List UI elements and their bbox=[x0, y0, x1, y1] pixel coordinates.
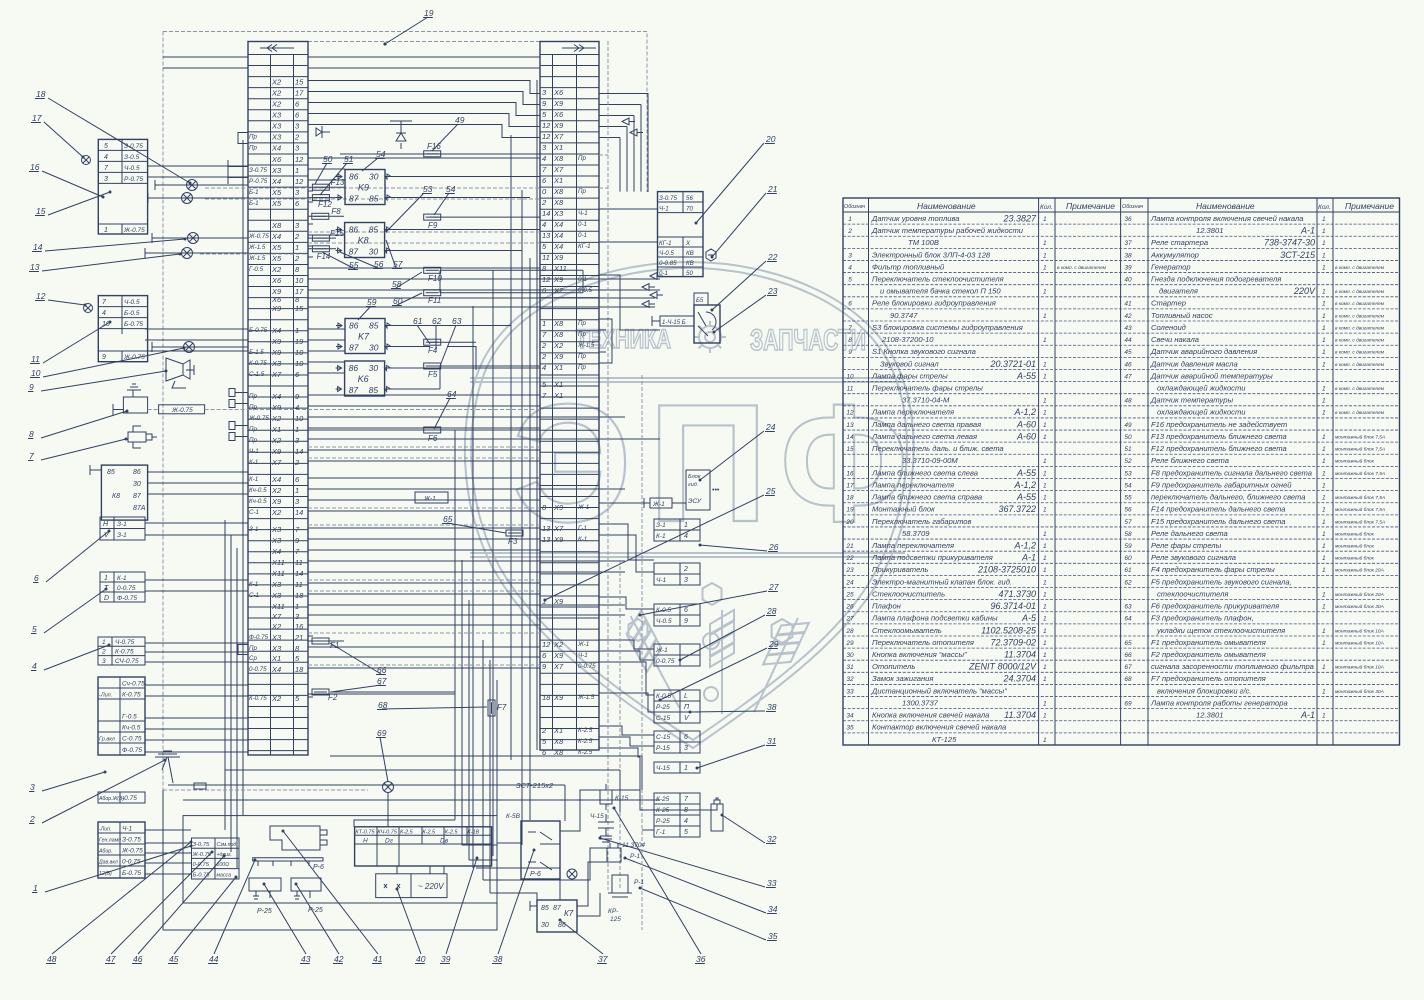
svg-text:З-0.75: З-0.75 bbox=[249, 167, 267, 174]
svg-text:72.3709-02: 72.3709-02 bbox=[990, 637, 1036, 647]
svg-text:F7: F7 bbox=[497, 703, 507, 712]
svg-text:масса: масса bbox=[217, 873, 232, 879]
svg-text:•••: ••• bbox=[712, 487, 720, 494]
svg-text:X3: X3 bbox=[271, 633, 282, 642]
svg-text:Ч-0.75: Ч-0.75 bbox=[115, 639, 135, 646]
svg-text:X4: X4 bbox=[553, 220, 563, 229]
svg-text:F9 предохранитель габаритных о: F9 предохранитель габаритных огней bbox=[1151, 480, 1292, 489]
svg-text:29: 29 bbox=[845, 640, 854, 647]
svg-text:1: 1 bbox=[1043, 313, 1047, 320]
svg-text:87: 87 bbox=[133, 493, 142, 500]
svg-text:ZENIT 8000/12V: ZENIT 8000/12V bbox=[968, 662, 1037, 672]
svg-text:42: 42 bbox=[1124, 313, 1132, 320]
svg-text:X1: X1 bbox=[553, 380, 563, 389]
svg-text:50: 50 bbox=[686, 270, 693, 277]
svg-text:F15: F15 bbox=[330, 229, 344, 238]
svg-text:13: 13 bbox=[30, 262, 40, 272]
svg-text:Пр: Пр bbox=[578, 188, 586, 195]
svg-text:Р-0.75: Р-0.75 bbox=[124, 176, 144, 183]
svg-text:1: 1 bbox=[1322, 410, 1326, 417]
svg-text:61: 61 bbox=[413, 316, 423, 326]
svg-text:С-1.5: С-1.5 bbox=[249, 371, 265, 378]
svg-text:16: 16 bbox=[846, 470, 854, 477]
svg-text:40: 40 bbox=[416, 954, 426, 964]
svg-text:Гнезда подключения подогревате: Гнезда подключения подогревателя bbox=[1151, 274, 1281, 283]
relay output wires bbox=[390, 177, 540, 390]
svg-text:34: 34 bbox=[846, 713, 854, 720]
svg-text:1: 1 bbox=[1043, 434, 1047, 441]
svg-text:1: 1 bbox=[1043, 482, 1047, 489]
svg-text:X2: X2 bbox=[271, 694, 282, 703]
svg-text:1: 1 bbox=[1043, 398, 1047, 405]
svg-text:13: 13 bbox=[542, 231, 551, 240]
svg-text:X9: X9 bbox=[553, 693, 564, 702]
220V outlet box bbox=[376, 874, 447, 898]
svg-text:27: 27 bbox=[768, 582, 779, 592]
svg-text:1: 1 bbox=[1322, 628, 1326, 635]
svg-text:Кол.: Кол. bbox=[1040, 204, 1053, 211]
svg-text:Пр: Пр bbox=[249, 393, 257, 400]
svg-text:Р-25: Р-25 bbox=[257, 908, 272, 915]
svg-text:Переключатель фары стрелы: Переключатель фары стрелы bbox=[872, 384, 983, 393]
P-1 relays and switches bottom right bbox=[567, 784, 645, 923]
svg-text:Лампа переключателя: Лампа переключателя bbox=[871, 480, 954, 489]
svg-text:3: 3 bbox=[684, 745, 688, 752]
svg-text:23.3827: 23.3827 bbox=[1002, 213, 1037, 223]
svg-text:18: 18 bbox=[295, 591, 304, 600]
svg-text:А-55: А-55 bbox=[1016, 492, 1037, 502]
svg-text:2: 2 bbox=[541, 352, 547, 361]
svg-text:X4: X4 bbox=[271, 475, 281, 484]
relay K6 bbox=[336, 361, 395, 396]
svg-text:0-0.85: 0-0.85 bbox=[659, 260, 677, 267]
svg-text:Ж-1: Ж-1 bbox=[652, 501, 665, 508]
svg-text:в комп. с двигателем: в комп. с двигателем bbox=[1335, 313, 1385, 319]
component box 15/16 (switch unit) bbox=[98, 139, 147, 234]
bottom routing wires bbox=[145, 694, 717, 930]
svg-text:Сзм.под: Сзм.под bbox=[217, 842, 237, 848]
svg-text:33: 33 bbox=[767, 878, 777, 888]
svg-text:Ч-1: Ч-1 bbox=[578, 210, 588, 217]
svg-text:X3: X3 bbox=[271, 166, 282, 175]
svg-text:X8: X8 bbox=[271, 221, 282, 230]
svg-text:в комп. с двигателем: в комп. с двигателем bbox=[1335, 386, 1385, 392]
svg-text:Ч-1: Ч-1 bbox=[249, 448, 259, 455]
svg-text:7: 7 bbox=[29, 451, 34, 461]
svg-text:F14 предохранитель дальнего св: F14 предохранитель дальнего света bbox=[1151, 505, 1286, 514]
svg-text:К-15: К-15 bbox=[615, 795, 629, 802]
svg-text:37: 37 bbox=[598, 954, 608, 964]
svg-text:в комп. с двигателем: в комп. с двигателем bbox=[1335, 338, 1385, 344]
svg-text:X6: X6 bbox=[271, 295, 282, 304]
svg-text:10: 10 bbox=[846, 373, 854, 380]
svg-text:X2: X2 bbox=[271, 508, 282, 517]
bolt terminal bbox=[706, 249, 716, 261]
bottom wide connector box bbox=[355, 827, 492, 866]
svg-text:КТ-125: КТ-125 bbox=[932, 735, 957, 744]
svg-text:X3: X3 bbox=[271, 525, 282, 534]
svg-text:Лампа контроля работы генерато: Лампа контроля работы генератора bbox=[1150, 698, 1288, 707]
svg-text:F6: F6 bbox=[428, 434, 438, 443]
svg-text:0-0.75: 0-0.75 bbox=[249, 666, 267, 673]
svg-text:K9: K9 bbox=[358, 183, 369, 193]
svg-text:Пр: Пр bbox=[249, 134, 257, 141]
svg-text:монтажный блок: монтажный блок bbox=[1335, 530, 1375, 537]
svg-text:K6: K6 bbox=[358, 374, 369, 384]
svg-text:Р-6: Р-6 bbox=[313, 864, 324, 871]
pedestal sensor bbox=[155, 751, 206, 789]
svg-text:К-1В: К-1В bbox=[467, 830, 479, 836]
svg-text:С-1: С-1 bbox=[249, 592, 259, 599]
svg-text:А-1,2: А-1,2 bbox=[1013, 540, 1036, 550]
svg-text:X4: X4 bbox=[553, 231, 563, 240]
svg-text:1: 1 bbox=[684, 765, 688, 772]
svg-text:96.3714-01: 96.3714-01 bbox=[990, 601, 1036, 611]
svg-text:65: 65 bbox=[1124, 640, 1132, 647]
svg-text:1: 1 bbox=[1322, 531, 1326, 538]
lower left box bbox=[98, 822, 145, 878]
svg-text:Контактор включения свечей нак: Контактор включения свечей накала bbox=[872, 723, 1006, 732]
svg-text:34: 34 bbox=[768, 904, 778, 914]
svg-text:в комп. с двигателем: в комп. с двигателем bbox=[1335, 289, 1385, 295]
svg-text:1: 1 bbox=[1043, 531, 1047, 538]
svg-text:Г-1: Г-1 bbox=[656, 829, 666, 836]
svg-text:46: 46 bbox=[1124, 361, 1132, 368]
svg-text:24: 24 bbox=[845, 579, 854, 586]
relay K7 bottom bbox=[530, 900, 577, 932]
svg-text:К-1: К-1 bbox=[249, 581, 258, 588]
svg-text:25: 25 bbox=[765, 486, 776, 496]
svg-text:F4 предохранитель фары стрелы: F4 предохранитель фары стрелы bbox=[1151, 565, 1275, 574]
svg-text:1: 1 bbox=[1322, 349, 1326, 356]
svg-text:5: 5 bbox=[104, 143, 108, 150]
svg-text:монтажный блок 7,5А: монтажный блок 7,5А bbox=[1335, 494, 1385, 501]
svg-text:12: 12 bbox=[542, 132, 551, 141]
svg-text:50: 50 bbox=[323, 154, 333, 164]
svg-text:87: 87 bbox=[349, 247, 359, 257]
connector strip (engine side, right) bbox=[540, 42, 599, 757]
svg-text:39: 39 bbox=[1124, 264, 1132, 271]
svg-text:D: D bbox=[104, 595, 109, 602]
svg-text:56: 56 bbox=[374, 259, 384, 269]
svg-text:Р-25: Р-25 bbox=[656, 818, 670, 825]
svg-text:45: 45 bbox=[169, 954, 179, 964]
svg-text:З-0.75: З-0.75 bbox=[193, 842, 211, 848]
svg-text:Примечание: Примечание bbox=[1345, 201, 1394, 211]
svg-text:1: 1 bbox=[1322, 337, 1326, 344]
svg-text:Б-0.75: Б-0.75 bbox=[193, 873, 211, 879]
svg-text:1: 1 bbox=[1043, 507, 1047, 514]
svg-text:З-1: З-1 bbox=[117, 521, 127, 528]
svg-text:85: 85 bbox=[107, 469, 115, 476]
svg-text:З-1: З-1 bbox=[249, 526, 258, 533]
svg-text:X8: X8 bbox=[553, 319, 564, 328]
svg-text:С-15: С-15 bbox=[656, 734, 670, 741]
svg-text:Лампа дальнего света левая: Лампа дальнего света левая bbox=[871, 432, 977, 441]
svg-text:35: 35 bbox=[768, 931, 778, 941]
svg-text:1: 1 bbox=[1043, 555, 1047, 562]
svg-text:38: 38 bbox=[493, 954, 503, 964]
svg-text:12.3801: 12.3801 bbox=[1196, 226, 1223, 235]
svg-text:60: 60 bbox=[1124, 555, 1132, 562]
fuse feed wires bbox=[308, 154, 583, 692]
svg-text:Ж-1: Ж-1 bbox=[423, 496, 436, 503]
svg-text:Дистанционный включатель “масс: Дистанционный включатель “массы” bbox=[871, 686, 1007, 695]
svg-text:X2: X2 bbox=[553, 341, 564, 350]
svg-text:Монтажный блок: Монтажный блок bbox=[872, 505, 935, 514]
svg-text:1: 1 bbox=[104, 575, 108, 582]
fuel level sender bbox=[113, 384, 248, 415]
ESU control unit bbox=[644, 470, 720, 510]
svg-text:X9: X9 bbox=[271, 337, 282, 346]
svg-text:8: 8 bbox=[848, 337, 852, 344]
svg-text:К8: К8 bbox=[112, 493, 120, 500]
svg-text:F8 предохранитель сигнала даль: F8 предохранитель сигнала дальнего света bbox=[1151, 468, 1312, 477]
svg-text:Ср: Ср bbox=[249, 655, 257, 662]
svg-text:X5: X5 bbox=[271, 243, 282, 252]
svg-text:X5: X5 bbox=[271, 188, 282, 197]
svg-text:X2: X2 bbox=[271, 99, 282, 108]
svg-text:18: 18 bbox=[846, 495, 854, 502]
lower harness boundary bbox=[163, 375, 642, 930]
svg-text:Пр: Пр bbox=[578, 353, 586, 360]
svg-text:К-1: К-1 bbox=[117, 575, 127, 582]
svg-text:57: 57 bbox=[1124, 519, 1132, 526]
svg-text:К7: К7 bbox=[564, 909, 574, 918]
svg-text:X8: X8 bbox=[553, 198, 564, 207]
svg-text:1: 1 bbox=[1043, 240, 1047, 247]
svg-text:X2: X2 bbox=[271, 77, 282, 86]
svg-text:4: 4 bbox=[542, 363, 546, 372]
svg-text:90.3747: 90.3747 bbox=[890, 311, 918, 320]
svg-text:35: 35 bbox=[846, 725, 854, 732]
svg-text:17: 17 bbox=[32, 113, 42, 123]
svg-text:1: 1 bbox=[1322, 688, 1326, 695]
svg-text:F1 предохранитель омывателя: F1 предохранитель омывателя bbox=[1151, 638, 1266, 647]
svg-text:в комп. с двигателем: в комп. с двигателем bbox=[1335, 301, 1385, 307]
svg-text:X2: X2 bbox=[271, 436, 282, 445]
svg-text:0-1: 0-1 bbox=[578, 221, 587, 228]
svg-text:1: 1 bbox=[1043, 567, 1047, 574]
svg-text:51: 51 bbox=[344, 154, 354, 164]
tall left box bbox=[98, 677, 145, 755]
svg-text:1: 1 bbox=[1043, 252, 1047, 259]
svg-text:Dг: Dг bbox=[385, 838, 394, 845]
fuse F9 bbox=[424, 214, 441, 230]
left box feed wires bbox=[145, 57, 248, 752]
svg-text:Ч-0.5: Ч-0.5 bbox=[659, 250, 674, 257]
svg-text:Свечи накала: Свечи накала bbox=[1151, 335, 1199, 344]
svg-text:Электро-магнитный клапан блок.: Электро-магнитный клапан блок. гид. bbox=[872, 577, 1012, 586]
svg-text:14: 14 bbox=[33, 242, 43, 252]
svg-text:X7: X7 bbox=[271, 612, 282, 621]
svg-text:11.3704: 11.3704 bbox=[622, 842, 645, 849]
svg-text:2: 2 bbox=[294, 132, 300, 141]
svg-text:65: 65 bbox=[443, 514, 453, 524]
svg-text:Х: Х bbox=[685, 240, 691, 247]
svg-text:Ж-0.75: Ж-0.75 bbox=[121, 848, 143, 855]
svg-text:З-0.75: З-0.75 bbox=[659, 195, 677, 202]
svg-text:16: 16 bbox=[295, 622, 304, 631]
svg-text:П: П bbox=[648, 369, 768, 557]
svg-text:Ж-0.75: Ж-0.75 bbox=[123, 227, 145, 234]
svg-text:12: 12 bbox=[542, 121, 551, 130]
connector strip X1-X11 (cab side, left) bbox=[248, 42, 308, 756]
horn bbox=[166, 358, 194, 388]
relay K8 bbox=[336, 223, 395, 258]
svg-text:А-1: А-1 bbox=[1300, 226, 1315, 236]
svg-text:Ч-1: Ч-1 bbox=[656, 577, 667, 584]
svg-text:К-1: К-1 bbox=[249, 459, 258, 466]
svg-text:59: 59 bbox=[367, 297, 377, 307]
svg-text:Пр: Пр bbox=[249, 645, 257, 652]
svg-text:87А: 87А bbox=[133, 505, 146, 512]
diode symbols bbox=[316, 121, 412, 149]
svg-text:87: 87 bbox=[349, 194, 359, 204]
svg-text:41: 41 bbox=[373, 954, 383, 964]
svg-text:3: 3 bbox=[102, 658, 106, 665]
svg-text:1: 1 bbox=[1043, 289, 1047, 296]
svg-text:1: 1 bbox=[1322, 252, 1326, 259]
svg-text:X11: X11 bbox=[271, 569, 285, 578]
svg-text:37: 37 bbox=[1124, 240, 1132, 247]
fuse F5 bbox=[424, 363, 441, 379]
svg-text:15: 15 bbox=[36, 206, 46, 216]
svg-text:К-0.75: К-0.75 bbox=[249, 695, 267, 702]
svg-text:X11: X11 bbox=[271, 602, 285, 611]
svg-text:1: 1 bbox=[295, 166, 299, 175]
svg-text:монтажный блок 10А: монтажный блок 10А bbox=[1335, 664, 1384, 671]
svg-text:Пр: Пр bbox=[249, 426, 257, 433]
pin bar P-6 bbox=[253, 858, 324, 871]
svg-text:9: 9 bbox=[29, 382, 34, 392]
svg-text:25: 25 bbox=[845, 591, 854, 598]
svg-text:Ж-1.5: Ж-1.5 bbox=[248, 244, 266, 251]
svg-text:K8: K8 bbox=[358, 236, 369, 246]
svg-text:монтажный блок 7,5А: монтажный блок 7,5А bbox=[1335, 446, 1385, 453]
svg-text:Б-1: Б-1 bbox=[249, 189, 259, 196]
svg-text:К-0.75: К-0.75 bbox=[115, 649, 134, 656]
svg-text:X6: X6 bbox=[553, 110, 564, 119]
svg-text:2: 2 bbox=[541, 198, 547, 207]
svg-text:X2: X2 bbox=[271, 88, 282, 97]
svg-text:Ф-0.75: Ф-0.75 bbox=[122, 747, 142, 754]
svg-text:23: 23 bbox=[767, 286, 778, 296]
svg-text:Б-1: Б-1 bbox=[249, 200, 259, 207]
svg-text:1: 1 bbox=[1322, 289, 1326, 296]
svg-text:4: 4 bbox=[542, 220, 546, 229]
svg-text:220V: 220V bbox=[1293, 286, 1316, 296]
fuse F16 bbox=[424, 142, 442, 157]
svg-text:монтажный блок 30А: монтажный блок 30А bbox=[1335, 688, 1384, 695]
svg-text:30: 30 bbox=[541, 922, 549, 929]
svg-text:X2: X2 bbox=[271, 265, 282, 274]
svg-text:21: 21 bbox=[845, 543, 854, 550]
svg-text:1: 1 bbox=[1043, 410, 1047, 417]
svg-text:X5: X5 bbox=[271, 199, 282, 208]
svg-text:2: 2 bbox=[541, 726, 547, 735]
svg-text:4: 4 bbox=[295, 403, 299, 412]
svg-text:1: 1 bbox=[1322, 713, 1326, 720]
svg-text:2: 2 bbox=[294, 458, 300, 467]
svg-text:1: 1 bbox=[1322, 470, 1326, 477]
svg-text:Ж-1.5: Ж-1.5 bbox=[577, 694, 595, 701]
svg-text:2: 2 bbox=[101, 649, 106, 656]
svg-text:11: 11 bbox=[542, 253, 550, 262]
svg-text:31: 31 bbox=[767, 736, 777, 746]
single row box bbox=[98, 792, 145, 803]
svg-text:54: 54 bbox=[376, 149, 386, 159]
svg-text:50: 50 bbox=[1124, 434, 1132, 441]
svg-text:9: 9 bbox=[848, 349, 852, 356]
svg-text:1: 1 bbox=[1043, 361, 1047, 368]
svg-text:64: 64 bbox=[1124, 616, 1132, 623]
svg-text:X2: X2 bbox=[271, 622, 282, 631]
svg-text:в комп. с двигателем: в комп. с двигателем bbox=[1335, 410, 1385, 416]
svg-text:1: 1 bbox=[295, 425, 299, 434]
svg-text:12.3801: 12.3801 bbox=[1196, 711, 1223, 720]
fuse F7 bbox=[488, 700, 507, 716]
svg-text:X4: X4 bbox=[271, 547, 281, 556]
svg-text:Р-1: Р-1 bbox=[630, 853, 641, 860]
svg-text:2108-3725010: 2108-3725010 bbox=[977, 565, 1036, 575]
plug silhouette bbox=[270, 826, 327, 850]
svg-text:54: 54 bbox=[1124, 482, 1132, 489]
svg-text:58.3709: 58.3709 bbox=[902, 529, 930, 538]
svg-text:14: 14 bbox=[846, 434, 854, 441]
svg-text:6: 6 bbox=[684, 607, 688, 614]
svg-text:62: 62 bbox=[432, 316, 442, 326]
svg-text:Ж-1: Ж-1 bbox=[655, 647, 668, 654]
svg-text:11.3704: 11.3704 bbox=[1004, 710, 1036, 720]
wires right strip to components bbox=[599, 41, 660, 890]
svg-text:85: 85 bbox=[541, 905, 549, 912]
svg-text:61: 61 bbox=[1124, 567, 1132, 574]
svg-text:23: 23 bbox=[845, 567, 854, 574]
svg-text:4: 4 bbox=[32, 661, 37, 671]
svg-text:48: 48 bbox=[47, 954, 57, 964]
svg-text:Лампа ближнего света справа: Лампа ближнего света справа bbox=[871, 493, 982, 502]
svg-text:Электронный блок 3ЛП-4-03: Электронный блок 3ЛП-4-03 128 bbox=[872, 250, 991, 259]
svg-text:Б5: Б5 bbox=[696, 298, 704, 304]
svg-text:1: 1 bbox=[1322, 640, 1326, 647]
svg-text:X2: X2 bbox=[553, 640, 564, 649]
svg-text:Датчик температуры: Датчик температуры bbox=[1150, 396, 1233, 405]
svg-text:Ген.ламп: Ген.ламп bbox=[99, 838, 121, 844]
svg-text:K7: K7 bbox=[358, 332, 370, 342]
svg-text:738-3747-30: 738-3747-30 bbox=[1264, 238, 1315, 248]
svg-text:10: 10 bbox=[295, 348, 304, 357]
svg-text:9: 9 bbox=[684, 618, 688, 625]
svg-text:2: 2 bbox=[541, 341, 547, 350]
svg-text:К-2.5: К-2.5 bbox=[445, 830, 459, 836]
svg-text:X3: X3 bbox=[271, 110, 282, 119]
svg-text:X8: X8 bbox=[553, 330, 564, 339]
svg-text:в комп. с двигателем: в комп. с двигателем bbox=[1057, 265, 1107, 271]
svg-text:10: 10 bbox=[31, 368, 41, 378]
svg-text:Стартер: Стартер bbox=[1151, 299, 1186, 308]
svg-text:Г-1: Г-1 bbox=[578, 525, 587, 532]
svg-text:367.3722: 367.3722 bbox=[998, 504, 1036, 514]
svg-text:4: 4 bbox=[684, 818, 688, 825]
svg-text:КТ-0.75: КТ-0.75 bbox=[355, 830, 375, 836]
svg-text:10: 10 bbox=[295, 359, 304, 368]
svg-text:1: 1 bbox=[1322, 240, 1326, 247]
svg-text:X4: X4 bbox=[553, 242, 563, 251]
wires left strip to middle bbox=[308, 158, 660, 697]
svg-text:3: 3 bbox=[848, 252, 852, 259]
svg-text:Прикуриватель: Прикуриватель bbox=[872, 565, 928, 574]
